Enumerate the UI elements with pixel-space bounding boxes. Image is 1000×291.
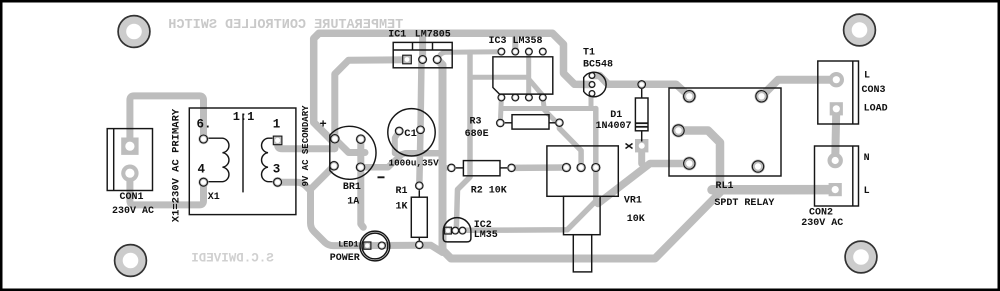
svg-text:1: 1 bbox=[273, 118, 281, 132]
svg-text:LM35: LM35 bbox=[474, 230, 498, 241]
svg-text:LOAD: LOAD bbox=[864, 104, 888, 115]
svg-text:CON1: CON1 bbox=[120, 192, 144, 203]
svg-text:D1: D1 bbox=[610, 110, 622, 121]
svg-text:R1: R1 bbox=[396, 186, 408, 197]
svg-text:LM358: LM358 bbox=[513, 36, 543, 47]
svg-text:1A: 1A bbox=[347, 197, 359, 208]
svg-text:L: L bbox=[864, 186, 870, 197]
svg-text:N: N bbox=[864, 153, 870, 164]
svg-text:4: 4 bbox=[198, 163, 206, 177]
svg-text:BC548: BC548 bbox=[583, 59, 613, 70]
svg-text:+: + bbox=[320, 118, 327, 132]
svg-text:R2 10K: R2 10K bbox=[471, 186, 507, 197]
svg-text:BR1: BR1 bbox=[343, 182, 361, 193]
svg-text:1N4007: 1N4007 bbox=[596, 121, 632, 132]
svg-text:X1=230V AC PRIMARY: X1=230V AC PRIMARY bbox=[171, 108, 183, 222]
svg-text:POWER: POWER bbox=[330, 253, 360, 264]
svg-text:T1: T1 bbox=[583, 47, 595, 58]
svg-text:1:1: 1:1 bbox=[233, 110, 255, 124]
svg-text:9V AC SECONDARY: 9V AC SECONDARY bbox=[301, 105, 311, 187]
svg-text:S.C.DWIVEDI: S.C.DWIVEDI bbox=[191, 252, 274, 266]
svg-text:1K: 1K bbox=[396, 201, 408, 212]
svg-text:LED1: LED1 bbox=[338, 240, 358, 250]
svg-text:230V AC: 230V AC bbox=[112, 206, 154, 217]
svg-text:LM7805: LM7805 bbox=[415, 30, 451, 41]
svg-text:SPDT RELAY: SPDT RELAY bbox=[714, 198, 774, 209]
svg-text:3: 3 bbox=[273, 163, 281, 177]
svg-text:1000u,35V: 1000u,35V bbox=[389, 157, 440, 168]
svg-text:IC3: IC3 bbox=[489, 36, 507, 47]
svg-text:C1: C1 bbox=[404, 128, 417, 140]
svg-text:10K: 10K bbox=[627, 214, 645, 225]
svg-text:VR1: VR1 bbox=[624, 196, 642, 207]
svg-text:R3: R3 bbox=[470, 116, 482, 127]
svg-text:TEMPERATURE CONTROLLED SWITCH: TEMPERATURE CONTROLLED SWITCH bbox=[168, 18, 403, 33]
svg-text:6.: 6. bbox=[197, 118, 212, 132]
svg-text:CON3: CON3 bbox=[862, 85, 886, 96]
svg-text:X1: X1 bbox=[208, 192, 220, 203]
svg-text:230V AC: 230V AC bbox=[801, 218, 843, 229]
svg-text:680E: 680E bbox=[465, 129, 489, 140]
svg-text:RL1: RL1 bbox=[716, 181, 734, 192]
svg-text:L: L bbox=[864, 71, 870, 82]
